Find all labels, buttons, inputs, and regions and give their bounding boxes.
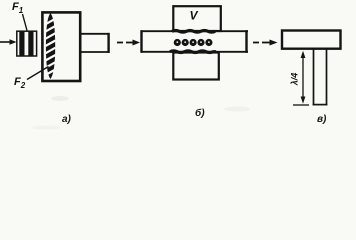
paper smudge xyxy=(32,126,60,130)
stub left wall xyxy=(313,50,315,106)
coil turn 4 xyxy=(197,39,204,46)
tube b left end cap xyxy=(140,30,142,53)
stub right wall xyxy=(326,50,328,106)
svg-text:а): а) xyxy=(62,114,72,125)
main pipe c xyxy=(282,31,341,49)
diaphragm plate 1 xyxy=(19,32,24,57)
coil turn 2 xyxy=(182,39,189,46)
coil turn 1 xyxy=(174,39,181,46)
piezo plate (hatched lens) xyxy=(45,13,55,79)
perforated wall bottom (wavy) xyxy=(170,51,216,53)
chamber box bottom xyxy=(173,53,219,80)
stub closed end xyxy=(313,104,328,106)
paper smudge xyxy=(51,96,69,101)
leader line from F2 xyxy=(27,67,49,80)
svg-text:б): б) xyxy=(195,107,205,119)
coil turn 3 xyxy=(190,39,197,46)
outlet tube a end cap xyxy=(107,33,109,53)
inlet arrow a xyxy=(0,39,17,44)
svg-text:F2: F2 xyxy=(14,76,26,90)
diaphragm housing (small tube) xyxy=(17,31,37,56)
dimension extension tick xyxy=(293,104,309,106)
chamber box top (V) xyxy=(173,6,221,31)
coil turn 5 xyxy=(205,39,212,46)
chamber block a xyxy=(42,12,80,81)
perforated wall top (wavy) xyxy=(172,31,215,33)
tube b top wall xyxy=(141,30,248,32)
diaphragm plate 2 xyxy=(28,32,33,57)
dimension line lambda/4 xyxy=(301,51,306,104)
tube b bottom wall xyxy=(141,51,248,53)
outlet tube a bottom wall xyxy=(82,51,110,53)
tube b right end cap xyxy=(245,30,247,53)
leader line from F1 xyxy=(23,14,28,31)
svg-text:V: V xyxy=(190,9,199,23)
arrow b to c xyxy=(253,40,278,46)
outlet tube a top wall xyxy=(82,33,110,35)
paper smudge xyxy=(224,107,250,112)
svg-text:λ/4: λ/4 xyxy=(290,73,300,87)
arrow a to b xyxy=(117,40,140,46)
svg-text:F1: F1 xyxy=(12,1,24,15)
svg-text:в): в) xyxy=(317,114,327,125)
